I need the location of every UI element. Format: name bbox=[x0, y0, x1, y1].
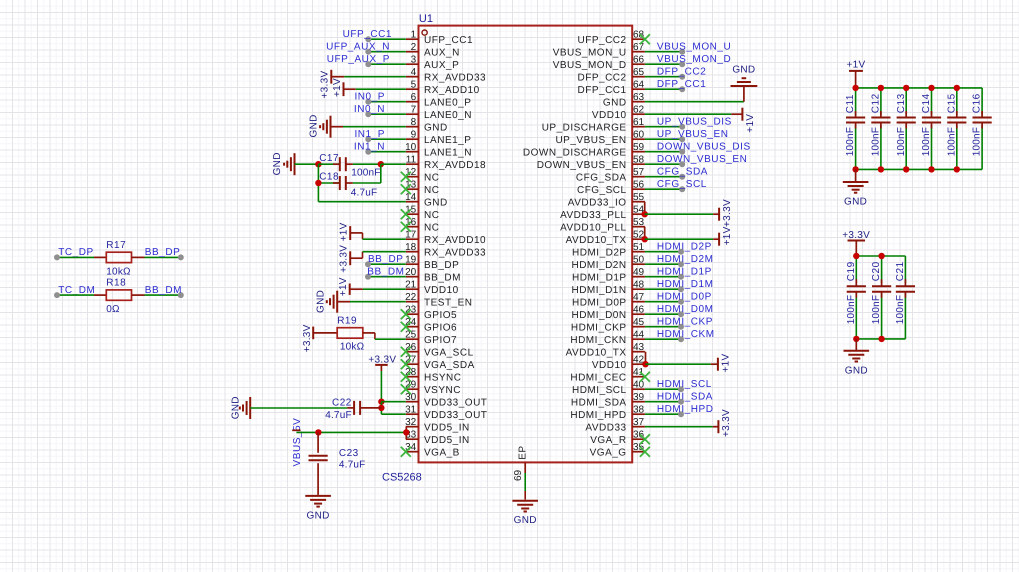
wire pin 62 bbox=[645, 113, 732, 115]
svg-text:C21: C21 bbox=[895, 261, 906, 281]
junction top rail bbox=[954, 85, 960, 91]
junction top rail bbox=[853, 253, 859, 259]
junction at pins 32/33 bbox=[403, 429, 409, 435]
wire pin 65 to net DFP_CC2 bbox=[645, 76, 682, 78]
svg-text:VBUS_MON_U: VBUS_MON_U bbox=[553, 47, 627, 58]
svg-text:+3.3V: +3.3V bbox=[338, 245, 349, 273]
resistor R18 bbox=[106, 290, 131, 300]
capacitor C17 bbox=[339, 157, 341, 171]
svg-text:GPIO7: GPIO7 bbox=[424, 335, 457, 346]
wire pin 67 to net VBUS_MON_U bbox=[645, 51, 682, 53]
capacitor C18 bbox=[339, 176, 341, 190]
svg-text:LANE0_P: LANE0_P bbox=[424, 97, 471, 108]
svg-text:GND: GND bbox=[231, 396, 242, 419]
svg-text:36: 36 bbox=[633, 430, 645, 441]
ground pin 22 bbox=[336, 291, 338, 313]
node TC_DP endpoint bbox=[54, 254, 60, 260]
ground pin 8 bbox=[330, 116, 332, 138]
junction bottom rail bbox=[878, 166, 884, 172]
svg-text:100nF: 100nF bbox=[871, 295, 882, 324]
power +1V pin 52 bbox=[718, 233, 720, 246]
svg-text:GND: GND bbox=[603, 97, 627, 108]
svg-text:HDMI_D1M: HDMI_D1M bbox=[657, 279, 714, 290]
svg-text:IN1_P: IN1_P bbox=[354, 129, 385, 140]
svg-text:GND: GND bbox=[308, 114, 319, 137]
pin 32 VDD5_IN (left) bbox=[406, 426, 419, 428]
bracket pins 55-54 bbox=[644, 202, 646, 215]
power +1V pin 42 bbox=[717, 358, 719, 371]
pin 45 HDMI_CKP (right) bbox=[632, 326, 645, 328]
wire gnd to node A bbox=[295, 163, 319, 165]
wire pin 17 bbox=[362, 233, 364, 239]
pin 47 HDMI_D0P (right) bbox=[632, 301, 645, 303]
wire pin 61 to net UP_VBUS_DIS bbox=[645, 126, 682, 128]
pin 33 VDD5_IN (left) bbox=[406, 438, 419, 440]
svg-text:TC_DP: TC_DP bbox=[58, 247, 94, 258]
svg-text:AVDD33_IO: AVDD33_IO bbox=[568, 197, 627, 208]
power +1V pin 62 bbox=[741, 108, 743, 121]
ground at C22 bbox=[249, 397, 251, 419]
pin 5 RX_ADD10 (left) bbox=[406, 88, 419, 90]
svg-text:C14: C14 bbox=[921, 93, 932, 113]
svg-text:RX_ADD10: RX_ADD10 bbox=[424, 85, 480, 96]
node HDMI_D1P endpoint bbox=[678, 274, 684, 280]
svg-text:61: 61 bbox=[633, 117, 645, 128]
svg-text:65: 65 bbox=[633, 67, 645, 78]
junction C22 tap bbox=[378, 405, 384, 411]
capacitor C15 bbox=[956, 88, 958, 115]
wire bottom rail C19-C21 bbox=[856, 338, 905, 340]
svg-text:4.7uF: 4.7uF bbox=[351, 187, 378, 198]
svg-text:GND: GND bbox=[315, 290, 326, 313]
svg-text:HDMI_D2P: HDMI_D2P bbox=[657, 242, 712, 253]
node CFG_SDA endpoint bbox=[679, 174, 685, 180]
wire node B to pin 11 bbox=[381, 163, 406, 165]
pin 28 HSYNC (left) bbox=[406, 376, 419, 378]
svg-text:100nF: 100nF bbox=[846, 295, 857, 324]
svg-text:RX_AVDD33: RX_AVDD33 bbox=[424, 72, 486, 83]
junction pin 54 bbox=[642, 211, 648, 217]
pin 8 GND (left) bbox=[406, 126, 419, 128]
svg-text:HDMI_SDA: HDMI_SDA bbox=[657, 392, 713, 403]
no-connect pin 29 bbox=[401, 384, 411, 394]
svg-text:AVDD33_PLL: AVDD33_PLL bbox=[560, 210, 627, 221]
wire +3.3V down to pin 30 bbox=[380, 371, 382, 402]
svg-text:CFG_SCL: CFG_SCL bbox=[577, 185, 627, 196]
svg-text:NC: NC bbox=[424, 172, 439, 183]
svg-text:18: 18 bbox=[405, 242, 417, 253]
svg-text:BB_DP: BB_DP bbox=[145, 247, 181, 258]
wire down to pin 31 bbox=[380, 402, 382, 415]
junction top rail bbox=[903, 85, 909, 91]
pin 1 UFP_CC1 (left) bbox=[406, 38, 419, 40]
bracket pins 43-42 bbox=[645, 352, 647, 365]
wire pin 18 bbox=[362, 252, 364, 259]
pin 48 HDMI_D1N (right) bbox=[632, 288, 645, 290]
junction bottom rail bbox=[853, 336, 859, 342]
wire pin 56 to net CFG_SCL bbox=[645, 188, 682, 190]
pin 14 GND (left) bbox=[406, 201, 419, 203]
wire VBUS_5V to pins 32/33 bbox=[296, 431, 406, 433]
svg-text:C20: C20 bbox=[871, 261, 882, 281]
node UFP_CC1 endpoint bbox=[365, 36, 371, 42]
wire pin 57 to net CFG_SDA bbox=[645, 176, 682, 178]
bracket pins 32-33 bbox=[405, 427, 407, 440]
capacitor C14 bbox=[931, 88, 933, 115]
junction bottom rail bbox=[928, 166, 934, 172]
svg-text:10: 10 bbox=[405, 142, 417, 153]
no-connect pin 28 bbox=[401, 372, 411, 382]
svg-text:62: 62 bbox=[633, 105, 645, 116]
power +3.3V pin 54 bbox=[718, 208, 720, 221]
svg-text:8: 8 bbox=[411, 117, 417, 128]
pin 58 DOWN_VBUS_EN (right) bbox=[632, 163, 645, 165]
svg-text:66: 66 bbox=[633, 55, 645, 66]
svg-text:HSYNC: HSYNC bbox=[424, 372, 462, 383]
pin 37 AVDD33 (right) bbox=[632, 426, 645, 428]
no-connect pin 26 bbox=[401, 347, 411, 357]
power +1V pin 5 bbox=[343, 82, 345, 96]
svg-text:GND: GND bbox=[424, 197, 448, 208]
svg-text:HDMI_SCL: HDMI_SCL bbox=[572, 385, 627, 396]
svg-text:C11: C11 bbox=[845, 94, 856, 113]
wire net BB_DP to pin 19 bbox=[368, 263, 406, 265]
pin 12 NC (left) bbox=[406, 176, 419, 178]
node DFP_CC2 endpoint bbox=[679, 74, 685, 80]
svg-text:4.7uF: 4.7uF bbox=[339, 460, 366, 471]
pin 22 TEST_EN (left) bbox=[406, 301, 419, 303]
ground C19 bank bbox=[855, 339, 857, 350]
svg-text:BB_DP: BB_DP bbox=[368, 254, 404, 265]
svg-text:HDMI_D2P: HDMI_D2P bbox=[572, 247, 627, 258]
wire node B down to C18 bbox=[380, 164, 382, 183]
svg-text:GND: GND bbox=[732, 65, 755, 76]
power +3.3V at R19 bbox=[312, 327, 314, 340]
ground at C23 bbox=[305, 495, 331, 497]
svg-text:RX_AVDD18: RX_AVDD18 bbox=[424, 160, 486, 171]
junction top rail bbox=[878, 85, 884, 91]
svg-text:VBUS_5V: VBUS_5V bbox=[292, 418, 303, 467]
capacitor C21 bbox=[904, 279, 906, 286]
pin 46 HDMI_D0N (right) bbox=[632, 313, 645, 315]
pin 24 GPIO6 (left) bbox=[406, 326, 419, 328]
svg-text:50: 50 bbox=[633, 255, 645, 266]
node DOWN_VBUS_DIS endpoint bbox=[679, 149, 685, 155]
junction bottom rail bbox=[852, 166, 858, 172]
wire gnd to C22 bbox=[250, 407, 347, 409]
wire top rail C11-C16 bbox=[856, 87, 983, 89]
svg-text:+1V: +1V bbox=[338, 277, 349, 296]
pin 7 LANE0_N (left) bbox=[406, 113, 419, 115]
pin 34 VGA_B (left) bbox=[406, 451, 419, 453]
svg-text:UFP_AUX_P: UFP_AUX_P bbox=[327, 54, 390, 65]
svg-text:+1V: +1V bbox=[721, 353, 732, 372]
wire pin 51 to net HDMI_D2P bbox=[645, 251, 681, 253]
svg-text:+1V: +1V bbox=[332, 78, 343, 97]
capacitor C20 bbox=[881, 256, 883, 283]
svg-text:VBUS_MON_D: VBUS_MON_D bbox=[657, 54, 731, 65]
svg-text:59: 59 bbox=[633, 142, 645, 153]
node HDMI_D0P endpoint bbox=[678, 299, 684, 305]
wire pin 58 to net DOWN_VBUS_EN bbox=[645, 163, 682, 165]
svg-text:DOWN_VBUS_EN: DOWN_VBUS_EN bbox=[657, 154, 748, 165]
pin 13 NC (left) bbox=[406, 188, 419, 190]
wire +3.3V to R19 bbox=[313, 332, 337, 334]
svg-text:58: 58 bbox=[633, 155, 645, 166]
wire net IN0_N to pin 7 bbox=[368, 113, 406, 115]
svg-text:32: 32 bbox=[405, 417, 417, 428]
svg-text:53: 53 bbox=[633, 217, 645, 228]
svg-text:10kΩ: 10kΩ bbox=[340, 342, 365, 353]
wire pin 60 to net UP_VBUS_EN bbox=[645, 138, 682, 140]
svg-text:IN0_P: IN0_P bbox=[354, 92, 385, 103]
pin 67 VBUS_MON_U (right) bbox=[632, 51, 645, 53]
svg-text:R18: R18 bbox=[106, 278, 126, 289]
wire net UFP_AUX_N to pin 2 bbox=[368, 51, 406, 53]
pin 17 RX_AVDD10 (left) bbox=[406, 238, 419, 240]
node IN0_P endpoint bbox=[365, 99, 371, 105]
no-connect pin 13 bbox=[401, 184, 411, 194]
wire pin 49 to net HDMI_D1P bbox=[645, 276, 681, 278]
wire pin 44 to net HDMI_CKM bbox=[645, 338, 681, 340]
svg-text:5: 5 bbox=[411, 80, 417, 91]
svg-text:VGA_B: VGA_B bbox=[424, 447, 460, 458]
node VBUS_MON_D endpoint bbox=[679, 61, 685, 67]
svg-text:C23: C23 bbox=[339, 448, 359, 459]
svg-text:TEST_EN: TEST_EN bbox=[424, 297, 473, 308]
ground at C17 bbox=[294, 153, 296, 175]
junction top rail bbox=[852, 85, 858, 91]
pin 9 LANE1_P (left) bbox=[406, 138, 419, 140]
svg-text:TC_DM: TC_DM bbox=[58, 285, 95, 296]
svg-text:IN0_N: IN0_N bbox=[354, 104, 385, 115]
pin 52 AVDD10_TX (right) bbox=[632, 238, 645, 240]
node DOWN_VBUS_EN endpoint bbox=[679, 161, 685, 167]
svg-text:BB_DM: BB_DM bbox=[367, 267, 404, 278]
no-connect pin 27 bbox=[401, 359, 411, 369]
wire pin 48 to net HDMI_D1M bbox=[645, 288, 681, 290]
pin 64 DFP_CC1 (right) bbox=[632, 88, 645, 90]
svg-text:CS5268: CS5268 bbox=[382, 472, 422, 484]
wire net UFP_CC1 to pin 1 bbox=[368, 38, 406, 40]
svg-text:11: 11 bbox=[406, 155, 417, 166]
svg-text:31: 31 bbox=[405, 405, 417, 416]
wire net BB_DM to pin 20 bbox=[368, 276, 406, 278]
svg-text:R19: R19 bbox=[337, 316, 357, 327]
node HDMI_SDA endpoint bbox=[678, 399, 684, 405]
node HDMI_D2P endpoint bbox=[678, 249, 684, 255]
wire pin 30 bbox=[381, 401, 405, 403]
pin 3 AUX_P (left) bbox=[406, 63, 419, 65]
pin 49 HDMI_D1P (right) bbox=[632, 276, 645, 278]
svg-text:45: 45 bbox=[633, 317, 645, 328]
svg-text:UFP_CC1: UFP_CC1 bbox=[343, 29, 392, 40]
svg-text:63: 63 bbox=[633, 92, 645, 103]
pin 15 NC (left) bbox=[406, 213, 419, 215]
wire net IN1_N to pin 10 bbox=[368, 151, 406, 153]
svg-text:UFP_CC1: UFP_CC1 bbox=[424, 35, 473, 46]
svg-text:DOWN_DISCHARGE: DOWN_DISCHARGE bbox=[523, 147, 627, 158]
svg-text:GND: GND bbox=[514, 515, 537, 526]
svg-text:GPIO5: GPIO5 bbox=[424, 310, 457, 321]
pin 65 DFP_CC2 (right) bbox=[632, 76, 645, 78]
no-connect pin 24 bbox=[401, 322, 411, 332]
no-connect pin 68 bbox=[640, 34, 650, 44]
svg-text:55: 55 bbox=[633, 192, 645, 203]
junction C18 left bbox=[315, 180, 321, 186]
svg-text:GND: GND bbox=[424, 122, 448, 133]
svg-text:GND: GND bbox=[845, 366, 868, 377]
wire pin 31 bbox=[381, 413, 405, 415]
resistor R17 bbox=[106, 252, 131, 262]
svg-text:37: 37 bbox=[633, 417, 645, 428]
svg-text:EP: EP bbox=[518, 445, 529, 459]
svg-text:100nF: 100nF bbox=[896, 127, 907, 156]
svg-text:48: 48 bbox=[633, 280, 645, 291]
svg-text:RX_AVDD10: RX_AVDD10 bbox=[424, 235, 486, 246]
pin 69 EP (bottom) bbox=[524, 462, 526, 473]
svg-text:GND: GND bbox=[307, 511, 330, 522]
svg-text:VDD10: VDD10 bbox=[424, 285, 459, 296]
svg-text:VDD5_IN: VDD5_IN bbox=[424, 422, 470, 433]
wire net IN1_P to pin 9 bbox=[368, 138, 406, 140]
svg-text:HDMI_D0P: HDMI_D0P bbox=[572, 297, 627, 308]
svg-text:39: 39 bbox=[633, 392, 645, 403]
pin 44 HDMI_CKN (right) bbox=[632, 338, 645, 340]
svg-text:DFP_CC1: DFP_CC1 bbox=[578, 85, 627, 96]
svg-text:4.7uF: 4.7uF bbox=[325, 410, 352, 421]
ground pin 63 bbox=[731, 85, 758, 87]
wire pin 38 to net HDMI_HPD bbox=[645, 413, 681, 415]
node B junction bbox=[378, 161, 384, 167]
svg-text:+1V: +1V bbox=[338, 222, 349, 241]
no-connect pin 15 bbox=[401, 209, 411, 219]
svg-text:49: 49 bbox=[633, 267, 645, 278]
node HDMI_SCL endpoint bbox=[678, 386, 684, 392]
pin 35 VGA_G (right) bbox=[632, 451, 645, 453]
node HDMI_HPD endpoint bbox=[678, 411, 684, 417]
pin 61 UP_DISCHARGE (right) bbox=[632, 126, 645, 128]
svg-text:44: 44 bbox=[633, 330, 645, 341]
svg-text:69: 69 bbox=[513, 469, 524, 481]
node DFP_CC1 endpoint bbox=[679, 86, 685, 92]
node BB_DP endpoint bbox=[178, 254, 184, 260]
svg-text:AUX_N: AUX_N bbox=[424, 47, 460, 58]
svg-text:HDMI_CKP: HDMI_CKP bbox=[657, 317, 713, 328]
svg-text:R17: R17 bbox=[106, 240, 126, 251]
svg-text:20: 20 bbox=[405, 267, 417, 278]
junction pin 30 bbox=[378, 399, 384, 405]
svg-text:HDMI_D2M: HDMI_D2M bbox=[657, 254, 714, 265]
svg-text:40: 40 bbox=[633, 380, 645, 391]
junction C23 tap bbox=[315, 429, 321, 435]
svg-text:4: 4 bbox=[411, 67, 417, 78]
svg-text:GND: GND bbox=[272, 152, 283, 175]
svg-text:VSYNC: VSYNC bbox=[424, 385, 461, 396]
node A junction bbox=[315, 161, 321, 167]
svg-text:22: 22 bbox=[405, 292, 417, 303]
svg-text:GPIO6: GPIO6 bbox=[424, 322, 457, 333]
svg-text:GND: GND bbox=[844, 197, 867, 208]
svg-text:+3.3V: +3.3V bbox=[320, 71, 331, 99]
capacitor C23 bbox=[317, 432, 319, 452]
svg-text:10kΩ: 10kΩ bbox=[106, 266, 131, 277]
bracket pins 53-52 bbox=[644, 227, 646, 240]
svg-text:DFP_CC1: DFP_CC1 bbox=[657, 79, 706, 90]
svg-text:57: 57 bbox=[633, 167, 645, 178]
node UFP_AUX_N endpoint bbox=[365, 49, 371, 55]
svg-text:100nF: 100nF bbox=[921, 127, 932, 156]
power +3.3V pin 18 bbox=[349, 251, 351, 265]
svg-text:UP_DISCHARGE: UP_DISCHARGE bbox=[542, 122, 627, 133]
wire bottom rail C11-C16 bbox=[856, 168, 983, 170]
capacitor C11 bbox=[855, 88, 857, 115]
wire pin 63 to ground bbox=[645, 101, 744, 103]
wire top rail C19-C21 bbox=[856, 255, 905, 257]
power +3.3V pin 37 bbox=[717, 420, 719, 433]
wire pin 59 to net DOWN_VBUS_DIS bbox=[645, 151, 682, 153]
svg-text:100nF: 100nF bbox=[895, 295, 906, 324]
svg-text:+3.3V: +3.3V bbox=[368, 355, 396, 366]
svg-text:HDMI_CKM: HDMI_CKM bbox=[657, 329, 715, 340]
wire pin 54 to +3.3V bbox=[645, 213, 714, 215]
svg-text:NC: NC bbox=[424, 185, 439, 196]
node BB_DP endpoint bbox=[365, 261, 371, 267]
svg-text:AVDD10_PLL: AVDD10_PLL bbox=[560, 222, 627, 233]
svg-text:VDD10: VDD10 bbox=[592, 110, 627, 121]
junction top rail bbox=[878, 253, 884, 259]
svg-text:U1: U1 bbox=[419, 13, 433, 25]
capacitor C12 bbox=[880, 88, 882, 115]
pin 30 VDD33_OUT (left) bbox=[406, 401, 419, 403]
capacitor C16 bbox=[981, 111, 983, 118]
node UP_VBUS_EN endpoint bbox=[679, 136, 685, 142]
svg-text:DFP_CC2: DFP_CC2 bbox=[578, 72, 627, 83]
pin 26 VGA_SCL (left) bbox=[406, 351, 419, 353]
svg-text:67: 67 bbox=[633, 42, 645, 53]
svg-text:LANE1_P: LANE1_P bbox=[424, 135, 471, 146]
svg-text:HDMI_D1P: HDMI_D1P bbox=[572, 272, 627, 283]
pin 60 UP_VBUS_EN (right) bbox=[632, 138, 645, 140]
pin 20 BB_DM (left) bbox=[406, 276, 419, 278]
pin 27 VGA_SDA (left) bbox=[406, 363, 419, 365]
pin 1 marker dot bbox=[422, 30, 427, 35]
pin 41 HDMI_CEC (right) bbox=[632, 376, 645, 378]
wire pin 42 to +1V bbox=[646, 363, 711, 365]
svg-text:2: 2 bbox=[411, 42, 417, 53]
svg-text:C22: C22 bbox=[332, 397, 352, 408]
svg-text:HDMI_D2N: HDMI_D2N bbox=[571, 260, 626, 271]
svg-text:47: 47 bbox=[633, 292, 645, 303]
node IN1_N endpoint bbox=[365, 149, 371, 155]
svg-text:AVDD10_TX: AVDD10_TX bbox=[566, 235, 627, 246]
svg-text:UP_VBUS_DIS: UP_VBUS_DIS bbox=[657, 117, 732, 128]
svg-text:HDMI_CEC: HDMI_CEC bbox=[570, 372, 626, 383]
svg-text:AVDD10_TX: AVDD10_TX bbox=[566, 347, 627, 358]
svg-text:UP_VBUS_EN: UP_VBUS_EN bbox=[555, 135, 626, 146]
svg-text:38: 38 bbox=[633, 405, 645, 416]
svg-text:CFG_SDA: CFG_SDA bbox=[657, 167, 708, 178]
svg-text:35: 35 bbox=[633, 442, 645, 453]
junction bottom rail bbox=[878, 336, 884, 342]
node BB_DM endpoint bbox=[178, 292, 184, 298]
svg-text:VDD5_IN: VDD5_IN bbox=[424, 435, 470, 446]
resistor R19 bbox=[337, 328, 363, 339]
svg-text:C19: C19 bbox=[846, 261, 857, 281]
svg-text:AVDD33: AVDD33 bbox=[585, 422, 626, 433]
svg-text:DOWN_VBUS_EN: DOWN_VBUS_EN bbox=[537, 160, 627, 171]
svg-text:21: 21 bbox=[405, 280, 417, 291]
